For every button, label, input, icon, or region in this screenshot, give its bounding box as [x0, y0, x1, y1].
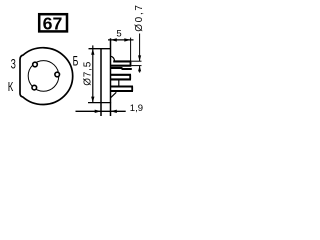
- svg-text:1,9: 1,9: [130, 103, 143, 114]
- svg-text:67: 67: [43, 13, 63, 33]
- svg-text:Ø7,5: Ø7,5: [83, 61, 94, 86]
- svg-text:Ø0,7: Ø0,7: [134, 3, 145, 31]
- svg-text:Б: Б: [73, 54, 79, 70]
- svg-text:5: 5: [116, 29, 121, 40]
- svg-text:К: К: [8, 81, 14, 95]
- svg-text:З: З: [11, 58, 16, 72]
